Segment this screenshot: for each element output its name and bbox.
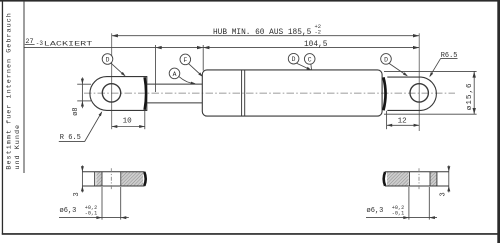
left section weld crescent: [144, 172, 145, 186]
left dia6-3 tolerance: [85, 205, 97, 217]
balloon F: [180, 54, 191, 65]
dia15-6 arrow bottom: [473, 108, 476, 114]
LACKIERT text: [44, 41, 93, 48]
dia8 dimension line: [81, 77, 83, 108]
right dim3 text: [440, 192, 448, 196]
left section bottom edge: [82, 185, 144, 187]
HUB left arrow: [112, 34, 118, 37]
balloon A: [169, 68, 180, 79]
svg-text:-0,1: -0,1: [85, 211, 97, 217]
svg-text:3: 3: [440, 192, 448, 196]
dim12 right arrow: [414, 124, 420, 127]
extension line x155: [155, 45, 157, 92]
left dia6-3 arrow 1: [96, 216, 102, 219]
svg-text:10: 10: [123, 118, 133, 126]
svg-text:und Kunde: und Kunde: [14, 124, 22, 170]
balloon D left: [102, 54, 113, 65]
right section right edge: [436, 172, 438, 186]
balloon D middle leader: [297, 63, 312, 70]
left section bore edge 1: [101, 172, 103, 186]
right dia6-3 arrow 2: [429, 216, 435, 219]
svg-text:D: D: [106, 56, 110, 63]
HUB right arrow: [413, 34, 419, 37]
dim12 extension line: [386, 111, 388, 129]
right section bore edge 1: [408, 172, 410, 186]
left dia6-3 text: [60, 207, 77, 215]
svg-text:12: 12: [398, 117, 408, 125]
top border line: [0, 0, 500, 2]
left dia6-3 extension 1: [101, 187, 103, 220]
right section weld crescent: [384, 172, 385, 186]
right section bore edge 2: [429, 172, 431, 186]
dim10 extension line: [144, 111, 146, 129]
left eye centerline: [111, 33, 113, 129]
right dia6-3 extension 1: [408, 187, 410, 220]
dia15-6 top extension: [384, 70, 477, 72]
right dia6-3 arrow 1: [403, 216, 409, 219]
right section centerline: [418, 168, 420, 189]
right section hatch band 1: [387, 172, 409, 186]
extension line x203: [202, 45, 204, 71]
balloon D right leader: [389, 63, 408, 76]
right dia6-3 dim line: [366, 217, 437, 219]
dia8 tick bottom: [77, 100, 91, 102]
R 6.5 underline: [59, 141, 85, 143]
left dia6-3 dim line: [59, 217, 129, 219]
left section hatch band 1: [96, 172, 102, 186]
svg-text:D: D: [292, 56, 296, 63]
left section centerline: [110, 168, 112, 189]
svg-text:Bestimmt fuer internen Gebrauc: Bestimmt fuer internen Gebrauch: [6, 12, 14, 169]
svg-text:LACKIERT: LACKIERT: [44, 41, 93, 48]
balloon C leader: [310, 64, 313, 69]
right border edge: [497, 0, 500, 243]
left dim3 arrow bottom: [81, 186, 84, 191]
body crimp groove line 1: [241, 70, 243, 116]
left section top edge: [82, 171, 144, 173]
left eyelet bore circle: [102, 84, 120, 102]
-3 tolerance text: [36, 40, 44, 47]
svg-text:3: 3: [73, 192, 81, 196]
piston rod top line: [147, 83, 203, 85]
dia15-6 arrow top: [473, 71, 476, 77]
balloon D left leader: [111, 63, 126, 76]
margin text line 1: [6, 12, 14, 169]
dia15-6 dimension line: [473, 71, 475, 114]
right dim3 arrow top: [447, 166, 450, 171]
balloon C: [304, 54, 315, 65]
hatch pattern def: [0, 0, 1, 1]
104,5 text: [304, 41, 328, 49]
body end cap crescent: [383, 77, 385, 110]
svg-text:D: D: [384, 56, 388, 63]
right eyelet bore circle: [410, 84, 428, 102]
right eye centerline: [418, 33, 420, 131]
right section bottom edge: [385, 185, 449, 187]
left eyelet outline: [90, 77, 147, 111]
margin text line 2: [14, 124, 22, 170]
dia15-6 text: [466, 82, 474, 110]
left border line: [2, 0, 3, 235]
27 left arrow: [156, 46, 162, 49]
left section hatch band 2: [121, 172, 143, 186]
right section hatch band 2: [430, 172, 436, 186]
right eyelet outline: [387, 77, 436, 110]
dim10 line: [112, 126, 145, 128]
dia8 arrow bottom: [81, 101, 84, 107]
balloon D right: [381, 54, 392, 65]
bottom border line: [2, 233, 498, 235]
piston rod bottom line: [147, 102, 203, 104]
left dia6-3 extension 2: [120, 187, 122, 220]
left eyelet weld crescent: [145, 77, 146, 110]
left dim3 arrow top: [81, 166, 84, 171]
balloon D middle: [288, 53, 299, 64]
svg-text:-3: -3: [36, 40, 44, 47]
dia8 tick top: [77, 83, 91, 85]
R 6.5 label bottom left: [60, 134, 81, 142]
cylinder body outline: [202, 70, 382, 116]
svg-text:-2: -2: [315, 30, 321, 36]
row2 dimension line: [25, 47, 420, 49]
svg-text:ø6,3: ø6,3: [367, 207, 384, 215]
dim12 text: [398, 117, 408, 125]
left dim3 text: [73, 192, 81, 196]
balloon A leader: [179, 77, 196, 85]
R6.5 top right leader: [429, 59, 440, 77]
svg-text:F: F: [183, 57, 187, 64]
27 text underline: [25, 44, 35, 46]
svg-text:-0,1: -0,1: [392, 211, 404, 217]
R6.5 label top right: [440, 52, 457, 60]
dim10 left arrow: [112, 125, 118, 128]
svg-text:104,5: 104,5: [304, 41, 328, 49]
dia8 text: [72, 108, 80, 116]
balloon F leader: [189, 64, 203, 77]
27 dimension text: [25, 38, 33, 46]
right section top edge: [385, 171, 449, 173]
left dia6-3 arrow 2: [121, 216, 127, 219]
HUB dimension text: [213, 29, 312, 37]
right dim3 line: [448, 165, 450, 192]
dim10 right arrow: [139, 125, 145, 128]
27 right arrow: [197, 46, 203, 49]
dim12 left arrow: [387, 124, 393, 127]
right dim3 arrow bottom: [447, 186, 450, 191]
body crimp groove line 2: [244, 70, 246, 116]
svg-text:ø8: ø8: [72, 108, 80, 116]
right dia6-3 extension 2: [428, 187, 430, 220]
main horizontal centerline: [84, 92, 455, 94]
dia8 arrow top: [81, 79, 84, 85]
svg-text:ø6,3: ø6,3: [60, 207, 77, 215]
left dim3 line: [81, 165, 83, 192]
R 6.5 leader: [85, 111, 103, 141]
104,5 left arrow: [203, 46, 209, 49]
HUB tolerance stacked text: [315, 24, 321, 36]
HUB dimension line: [112, 35, 420, 37]
right dia6-3 tolerance: [392, 205, 404, 217]
dim12 line: [387, 124, 420, 126]
left section left edge: [94, 172, 96, 186]
right dia6-3 text: [367, 207, 384, 215]
svg-text:C: C: [308, 56, 312, 63]
svg-text:R 6.5: R 6.5: [60, 134, 81, 142]
left strip divider: [24, 1, 25, 173]
svg-text:A: A: [173, 71, 177, 78]
svg-text:ø15,6: ø15,6: [466, 82, 474, 110]
dia15-6 bottom extension: [384, 113, 477, 115]
104,5 right arrow: [413, 46, 419, 49]
left section bore edge 2: [120, 172, 122, 186]
dim10 text: [123, 118, 133, 126]
